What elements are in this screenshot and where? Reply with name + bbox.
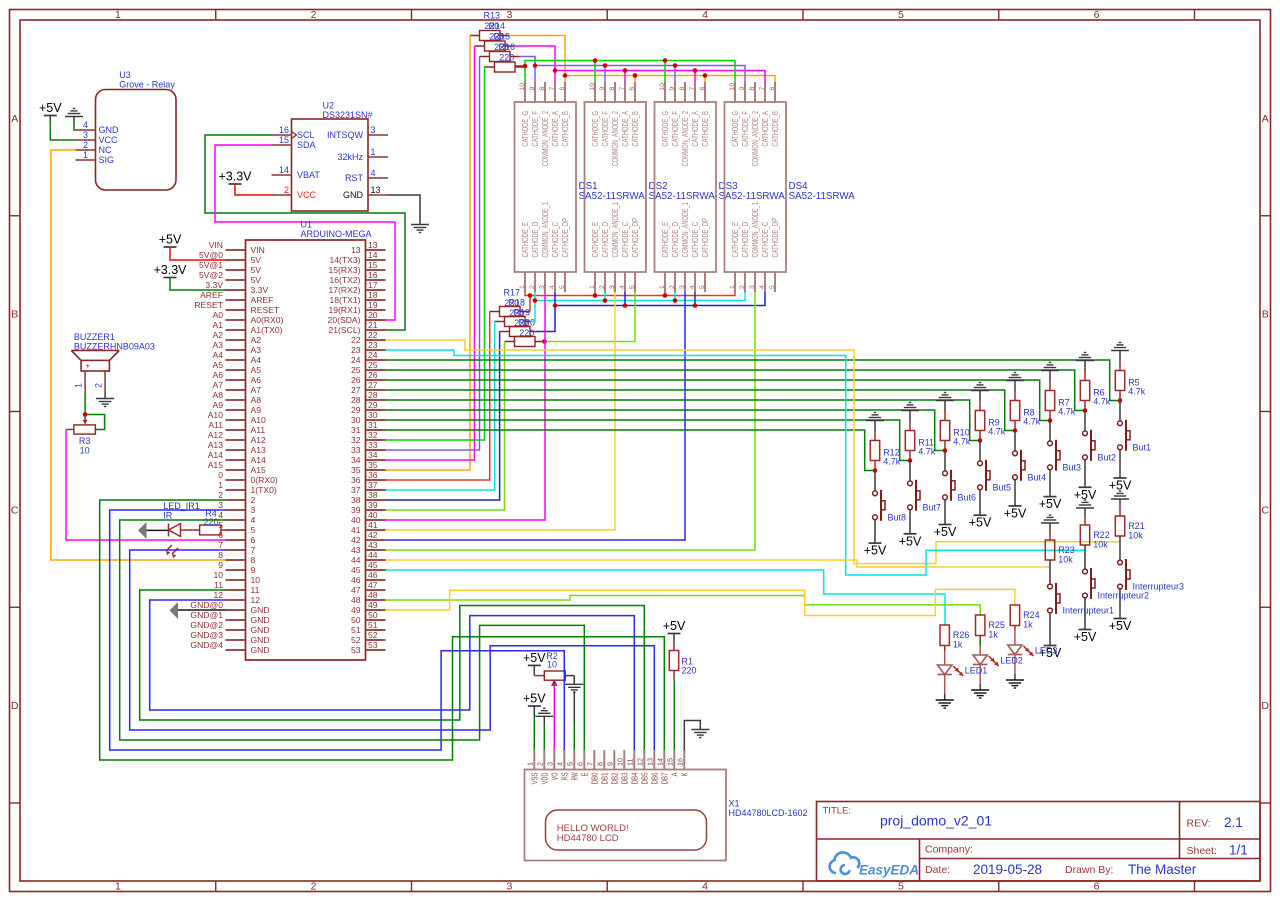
- svg-text:U3: U3: [119, 70, 131, 80]
- svg-text:3: 3: [546, 762, 555, 766]
- svg-text:B: B: [11, 309, 18, 321]
- svg-text:CATHODE_E: CATHODE_E: [661, 222, 670, 258]
- display DS1 SA52-11SRWA: [515, 82, 646, 292]
- EasyEDA logo: [830, 852, 919, 877]
- svg-text:7: 7: [619, 87, 626, 91]
- svg-text:39: 39: [351, 505, 361, 515]
- svg-text:38: 38: [368, 490, 378, 500]
- junction CATHODE_DP at R20: [542, 339, 547, 344]
- svg-text:9: 9: [529, 87, 536, 91]
- svg-text:ARDUINO-MEGA: ARDUINO-MEGA: [301, 229, 372, 239]
- wire BUZZER1 pin1 to R3 (green): [85, 391, 105, 430]
- svg-text:1k: 1k: [953, 640, 963, 650]
- wire U1 pin 31 to R12 junction (green): [386, 430, 874, 471]
- svg-text:CATHODE_D: CATHODE_D: [531, 222, 540, 258]
- svg-text:9: 9: [669, 87, 676, 91]
- svg-text:GND@3: GND@3: [190, 630, 223, 640]
- svg-text:2: 2: [599, 285, 606, 289]
- junction R8-But4: [1013, 428, 1018, 433]
- pushbutton But5: [978, 460, 1011, 493]
- earth ground (R10): [936, 393, 954, 412]
- resistor R15 220: [480, 32, 520, 62]
- junction R11-But7: [908, 458, 913, 463]
- svg-text:Sheet:: Sheet:: [1187, 845, 1217, 857]
- svg-text:42: 42: [368, 530, 378, 540]
- svg-text:39: 39: [368, 500, 378, 510]
- svg-text:RST: RST: [345, 173, 364, 183]
- svg-text:25: 25: [368, 360, 378, 370]
- svg-text:CATHODE_DP: CATHODE_DP: [771, 218, 780, 258]
- svg-text:CATHODE_C: CATHODE_C: [551, 222, 560, 258]
- wire BUZZER1 pin2 to ground: [104, 391, 106, 399]
- svg-text:35: 35: [368, 460, 378, 470]
- svg-text:COMMON_ANODE_2: COMMON_ANODE_2: [681, 111, 690, 167]
- wire But2 to +5V: [1084, 460, 1086, 488]
- wire U1 pin 22 to Interrupteur3 (yellow): [386, 340, 1121, 564]
- wire R1 to LCD pin A (green): [673, 680, 675, 751]
- svg-text:6: 6: [1094, 881, 1100, 893]
- wire U1 pin 38 to R19 (blue): [386, 332, 500, 501]
- wire U1 pin 12 to LCD DB4 (blue loop): [150, 600, 635, 750]
- earth ground (R2 / LCD RW): [565, 676, 583, 722]
- svg-text:AREF: AREF: [251, 295, 274, 305]
- svg-text:CATHODE_A: CATHODE_A: [761, 111, 770, 147]
- svg-text:38: 38: [351, 495, 361, 505]
- svg-text:Drawn By:: Drawn By:: [1065, 864, 1113, 876]
- svg-text:2: 2: [251, 495, 256, 505]
- svg-text:IR: IR: [163, 511, 173, 521]
- resistor R16 220: [485, 42, 525, 72]
- earth ground (R23): [1041, 515, 1059, 531]
- svg-text:48: 48: [368, 590, 378, 600]
- wire net CATHODE_C bus from R19 (blue): [530, 292, 765, 332]
- pushbutton But6: [943, 470, 976, 503]
- resistor R22 10k: [1080, 516, 1109, 550]
- resistor R10 4.7k: [940, 411, 970, 451]
- svg-text:VCC: VCC: [99, 135, 119, 145]
- svg-text:+5V: +5V: [1109, 619, 1132, 633]
- svg-text:CATHODE_E: CATHODE_E: [521, 222, 530, 258]
- svg-text:10: 10: [213, 570, 223, 580]
- svg-text:8: 8: [218, 550, 223, 560]
- svg-text:13: 13: [351, 245, 361, 255]
- resistor R18 220: [495, 298, 526, 327]
- svg-text:DB0: DB0: [590, 772, 599, 784]
- wire U1 pin 33 to R15 (purple): [386, 57, 480, 451]
- svg-text:CATHODE_F: CATHODE_F: [601, 111, 610, 147]
- svg-text:10: 10: [659, 83, 666, 91]
- svg-text:CATHODE_A: CATHODE_A: [621, 111, 630, 147]
- svg-text:COMMON_ANODE_2: COMMON_ANODE_2: [751, 111, 760, 167]
- svg-text:CATHODE_E: CATHODE_E: [591, 222, 600, 258]
- svg-text:2: 2: [94, 383, 104, 388]
- wire +3.3V to U2 VCC (red): [235, 184, 272, 195]
- svg-text:R20: R20: [519, 318, 536, 328]
- svg-text:4.7k: 4.7k: [883, 457, 901, 467]
- svg-text:4: 4: [702, 881, 708, 893]
- svg-text:6: 6: [769, 87, 776, 91]
- wire U1 pin 45 to R26 (cyan): [386, 570, 946, 625]
- svg-text:22: 22: [368, 330, 378, 340]
- wire But5 to +5V: [979, 490, 981, 516]
- wire R25 to LED2: [979, 636, 981, 656]
- svg-text:45: 45: [351, 565, 361, 575]
- junctions CATHODE_G bus: [523, 58, 668, 68]
- svg-text:52: 52: [368, 630, 378, 640]
- svg-text:DB1: DB1: [600, 772, 609, 784]
- svg-text:CATHODE_A: CATHODE_A: [691, 111, 700, 147]
- svg-text:DB2: DB2: [610, 772, 619, 784]
- svg-text:DB6: DB6: [650, 772, 659, 784]
- svg-text:44: 44: [368, 550, 378, 560]
- svg-text:52: 52: [351, 635, 361, 645]
- svg-text:6: 6: [576, 762, 585, 766]
- earth ground (R11): [901, 403, 919, 422]
- svg-text:DB5: DB5: [640, 772, 649, 784]
- wire drops CATHODE_B to display pins (orange): [565, 76, 705, 83]
- wire net CATHODE_F bus from R15 (purple): [520, 57, 746, 83]
- svg-text:7: 7: [759, 87, 766, 91]
- svg-text:DB7: DB7: [660, 772, 669, 784]
- wire +5V to U1 5V@0 (red): [170, 247, 226, 260]
- wire drops CATHODE_D to display pins (cyan): [605, 292, 675, 301]
- wire U1 pin 28 to R9 junction (green): [386, 400, 979, 441]
- earth ground (BUZZER1): [96, 399, 114, 407]
- svg-text:3: 3: [506, 881, 512, 893]
- svg-text:16(TX2): 16(TX2): [329, 275, 360, 285]
- component U3 Grove - Relay: [76, 70, 177, 190]
- wire But6 to +5V: [944, 500, 946, 525]
- svg-text:3.3V: 3.3V: [205, 280, 223, 290]
- svg-text:6: 6: [1094, 9, 1100, 21]
- junction R5-But1: [1118, 398, 1123, 403]
- svg-text:32: 32: [368, 430, 378, 440]
- svg-text:5: 5: [898, 9, 904, 21]
- svg-text:C: C: [1261, 504, 1269, 516]
- potentiometer R2 10: [534, 651, 574, 685]
- wire R26 to LED1: [944, 646, 946, 666]
- svg-text:5: 5: [251, 525, 256, 535]
- svg-text:4: 4: [759, 285, 766, 289]
- svg-text:31: 31: [368, 420, 378, 430]
- svg-text:2: 2: [529, 285, 536, 289]
- power +5V (But4): [1004, 506, 1027, 521]
- wire net CATHODE_E bus from R17 (red): [520, 292, 735, 312]
- svg-text:CATHODE_A: CATHODE_A: [551, 111, 560, 147]
- svg-text:SA52-11SRWA: SA52-11SRWA: [579, 191, 646, 202]
- svg-text:COMMON_ANODE_1: COMMON_ANODE_1: [681, 202, 690, 258]
- svg-text:Company:: Company:: [925, 844, 973, 856]
- earth ground (U2 GND): [411, 225, 429, 233]
- wire U1 pin 35 to R13 (orange): [386, 36, 471, 471]
- svg-text:5V@2: 5V@2: [199, 270, 223, 280]
- svg-text:VDD: VDD: [540, 772, 549, 784]
- wire U1 pin 7 to LCD DB6 (blue loop): [130, 550, 655, 750]
- svg-text:28: 28: [368, 390, 378, 400]
- svg-text:A14: A14: [208, 450, 224, 460]
- svg-text:4.7k: 4.7k: [1128, 387, 1146, 397]
- svg-text:U1: U1: [301, 220, 313, 230]
- power +5V (But3): [1039, 497, 1062, 512]
- svg-text:REV:: REV:: [1187, 818, 1211, 830]
- svg-text:R22: R22: [1093, 530, 1110, 540]
- wire R24 to LED3: [1014, 626, 1016, 646]
- wire R10 to But6: [944, 451, 946, 471]
- resistor R8 4.7k: [1010, 391, 1040, 431]
- svg-text:32kHz: 32kHz: [337, 152, 363, 162]
- svg-text:16: 16: [676, 758, 685, 766]
- svg-text:+5V: +5V: [1039, 497, 1062, 511]
- display DS4 SA52-11SRWA: [725, 82, 856, 292]
- svg-text:18: 18: [368, 290, 378, 300]
- svg-text:CATHODE_D: CATHODE_D: [601, 222, 610, 258]
- wire LED3 to ground: [1014, 655, 1016, 681]
- wire +5V to LCD pin 1 (green): [533, 716, 535, 750]
- wire drops CATHODE_C to display pins (blue): [625, 292, 695, 306]
- svg-text:4: 4: [619, 285, 626, 289]
- svg-text:A2: A2: [212, 330, 223, 340]
- svg-text:proj_domo_v2_01: proj_domo_v2_01: [880, 813, 992, 829]
- svg-text:CATHODE_G: CATHODE_G: [521, 111, 530, 147]
- power +5V (R2): [523, 651, 546, 676]
- svg-text:10: 10: [729, 83, 736, 91]
- svg-text:4.7k: 4.7k: [1023, 417, 1041, 427]
- earth ground (R22): [1076, 500, 1094, 516]
- svg-text:26: 26: [368, 370, 378, 380]
- svg-text:47: 47: [351, 585, 361, 595]
- svg-text:COMMON_ANODE_2: COMMON_ANODE_2: [611, 111, 620, 167]
- svg-text:A7: A7: [251, 385, 262, 395]
- svg-text:CATHODE_B: CATHODE_B: [631, 111, 640, 147]
- svg-text:GND: GND: [251, 635, 270, 645]
- wire LED1 to ground: [944, 675, 946, 701]
- svg-text:+5V: +5V: [159, 233, 182, 247]
- svg-text:9: 9: [739, 87, 746, 91]
- LED LED3: [1008, 645, 1058, 656]
- svg-text:EasyEDA: EasyEDA: [859, 863, 919, 878]
- potentiometer R3 10: [66, 415, 95, 456]
- svg-text:CATHODE_B: CATHODE_B: [561, 111, 570, 147]
- switch Interrupteur2: [1083, 568, 1149, 601]
- svg-text:4: 4: [251, 515, 256, 525]
- svg-text:2019-05-28: 2019-05-28: [973, 862, 1042, 877]
- svg-text:BUZZER1: BUZZER1: [74, 332, 115, 342]
- pushbutton But8: [873, 490, 906, 523]
- svg-text:5: 5: [629, 285, 636, 289]
- earth ground (LED1): [936, 700, 954, 708]
- wire But3 to +5V: [1049, 470, 1051, 497]
- component U2 DS3231SN#: [272, 101, 389, 212]
- svg-text:+5V: +5V: [523, 692, 546, 706]
- svg-text:13: 13: [646, 758, 655, 766]
- svg-text:A: A: [670, 772, 679, 776]
- power +5V (But8): [864, 543, 887, 558]
- resistor R12 4.7k: [870, 431, 900, 471]
- svg-text:10k: 10k: [1058, 555, 1073, 565]
- svg-text:INTSQW: INTSQW: [327, 130, 364, 140]
- svg-text:23: 23: [368, 340, 378, 350]
- wire Interrupteur3 to +5V: [1119, 589, 1121, 619]
- wire drops CATHODE_G to display pins (green): [595, 61, 665, 83]
- svg-text:10k: 10k: [1093, 540, 1108, 550]
- svg-text:3: 3: [506, 9, 512, 21]
- svg-text:23: 23: [351, 345, 361, 355]
- svg-text:8: 8: [679, 87, 686, 91]
- svg-text:9: 9: [218, 560, 223, 570]
- svg-text:14(TX3): 14(TX3): [329, 255, 360, 265]
- svg-text:A5: A5: [251, 365, 262, 375]
- svg-text:A14: A14: [251, 455, 267, 465]
- wire U1 pin 43 to DS4 COMMON_ANODE_1 (light green): [386, 292, 756, 550]
- wire U1 pin 36 to R17 (red): [386, 312, 490, 481]
- svg-text:GND: GND: [251, 615, 270, 625]
- svg-text:36: 36: [368, 470, 378, 480]
- svg-text:R17: R17: [504, 288, 521, 298]
- svg-text:RW: RW: [570, 772, 579, 780]
- junction at R3 wiper: [83, 412, 88, 417]
- svg-text:SA52-11SRWA: SA52-11SRWA: [789, 191, 856, 202]
- power +5V (But7): [899, 534, 922, 549]
- svg-text:A5: A5: [212, 360, 223, 370]
- title block: [817, 802, 1261, 882]
- svg-text:CATHODE_G: CATHODE_G: [661, 111, 670, 147]
- svg-text:41: 41: [351, 525, 361, 535]
- svg-text:VO: VO: [550, 773, 559, 781]
- svg-text:VBAT: VBAT: [297, 170, 320, 180]
- earth ground (U3): [65, 109, 83, 123]
- LED LED2: [973, 655, 1023, 666]
- svg-text:+5V: +5V: [934, 525, 957, 539]
- wire U1 pin 34 to R14 (magenta): [386, 46, 475, 460]
- power +3.3V (U1): [153, 263, 187, 278]
- svg-text:VIN: VIN: [209, 240, 223, 250]
- svg-text:R13: R13: [484, 11, 501, 21]
- power +5V (But6): [934, 525, 957, 540]
- svg-text:1: 1: [115, 9, 121, 21]
- wire LCD pin K to ground: [684, 721, 700, 751]
- svg-text:25: 25: [351, 365, 361, 375]
- svg-text:4: 4: [218, 510, 223, 520]
- svg-text:9: 9: [251, 565, 256, 575]
- svg-text:20(SDA): 20(SDA): [328, 315, 361, 325]
- svg-text:A7: A7: [212, 380, 223, 390]
- svg-text:RESET: RESET: [251, 305, 280, 315]
- svg-text:The Master: The Master: [1128, 862, 1197, 877]
- svg-text:7: 7: [251, 545, 256, 555]
- junctions CATHODE_F bus: [533, 63, 678, 68]
- wire U1 pin 44 to Interrupteur1 (yellow): [386, 560, 1051, 567]
- svg-text:10: 10: [80, 446, 90, 456]
- junction R6-But2: [1083, 408, 1088, 413]
- svg-text:2: 2: [83, 140, 88, 150]
- svg-text:31: 31: [351, 425, 361, 435]
- wire R21 to Interrupteur3: [1119, 536, 1121, 560]
- svg-text:12: 12: [636, 758, 645, 766]
- svg-text:A9: A9: [251, 405, 262, 415]
- svg-text:C: C: [11, 504, 19, 516]
- resistor R24 1k: [1010, 605, 1039, 630]
- svg-text:4.7k: 4.7k: [1093, 397, 1111, 407]
- svg-text:5V: 5V: [251, 275, 262, 285]
- component X1 HD44780LCD-1602: [525, 750, 808, 861]
- svg-text:1: 1: [371, 147, 376, 157]
- svg-text:But3: But3: [1063, 463, 1082, 473]
- junctions CATHODE_B bus: [563, 73, 708, 78]
- svg-text:A0: A0: [212, 310, 223, 320]
- svg-text:R26: R26: [953, 630, 970, 640]
- svg-text:1: 1: [115, 881, 121, 893]
- svg-text:GND@1: GND@1: [190, 610, 223, 620]
- power +3.3V (U2): [218, 170, 252, 185]
- svg-text:9: 9: [606, 762, 615, 766]
- svg-text:B: B: [1262, 309, 1269, 321]
- power +5V (Interrupteur1): [1039, 646, 1062, 661]
- svg-text:4.7k: 4.7k: [1058, 407, 1076, 417]
- LED LED1: [938, 665, 988, 676]
- svg-text:3: 3: [609, 285, 616, 289]
- svg-text:18(TX1): 18(TX1): [329, 295, 360, 305]
- svg-text:7: 7: [549, 87, 556, 91]
- svg-text:1: 1: [589, 285, 596, 289]
- wire U3 NC to U1 pin 8 (orange): [51, 150, 226, 560]
- svg-text:A3: A3: [251, 345, 262, 355]
- svg-text:CATHODE_F: CATHODE_F: [741, 111, 750, 147]
- svg-text:29: 29: [351, 405, 361, 415]
- svg-text:COMMON_ANODE_1: COMMON_ANODE_1: [541, 202, 550, 258]
- svg-text:220: 220: [519, 328, 534, 338]
- svg-text:1: 1: [74, 383, 84, 388]
- svg-text:Grove - Relay: Grove - Relay: [119, 80, 175, 90]
- svg-text:13: 13: [371, 185, 381, 195]
- svg-text:27: 27: [368, 380, 378, 390]
- power +5V (U3): [39, 101, 62, 122]
- svg-text:1: 1: [729, 285, 736, 289]
- svg-text:GND: GND: [343, 190, 364, 200]
- svg-text:36: 36: [351, 475, 361, 485]
- svg-text:24: 24: [368, 350, 378, 360]
- svg-text:R15: R15: [494, 32, 511, 42]
- svg-text:2: 2: [669, 285, 676, 289]
- svg-text:A13: A13: [208, 440, 224, 450]
- wire U1 pin 4 to LCD E (green loop): [120, 520, 585, 750]
- svg-text:D: D: [1261, 700, 1269, 712]
- power +5V (Interrupteur2): [1074, 630, 1097, 645]
- svg-text:19(RX1): 19(RX1): [329, 305, 361, 315]
- svg-text:49: 49: [351, 605, 361, 615]
- wire U1 pin 2 to LCD DB7 (green loop): [100, 500, 665, 760]
- svg-text:40: 40: [351, 515, 361, 525]
- component BUZZER1 BUZZERHNB09A03: [71, 332, 155, 391]
- svg-text:53: 53: [368, 640, 378, 650]
- wire R5 to But1: [1119, 401, 1121, 421]
- svg-text:SCL: SCL: [297, 130, 315, 140]
- svg-text:29: 29: [368, 400, 378, 410]
- svg-text:R3: R3: [79, 436, 91, 446]
- svg-text:COMMON_ANODE_2: COMMON_ANODE_2: [541, 111, 550, 167]
- wire U1 pin 32 to R16 (green): [386, 67, 485, 441]
- wire drops CATHODE_F to display pins (purple): [535, 66, 675, 83]
- junction R9-But5: [978, 438, 983, 443]
- power +5V (But5): [969, 515, 992, 530]
- svg-text:E: E: [580, 773, 589, 777]
- svg-text:CATHODE_C: CATHODE_C: [691, 222, 700, 258]
- svg-text:46: 46: [351, 575, 361, 585]
- display DS2 SA52-11SRWA: [585, 82, 716, 292]
- svg-text:37: 37: [351, 485, 361, 495]
- svg-text:2: 2: [311, 881, 317, 893]
- svg-text:But6: But6: [958, 493, 977, 503]
- svg-text:A8: A8: [251, 395, 262, 405]
